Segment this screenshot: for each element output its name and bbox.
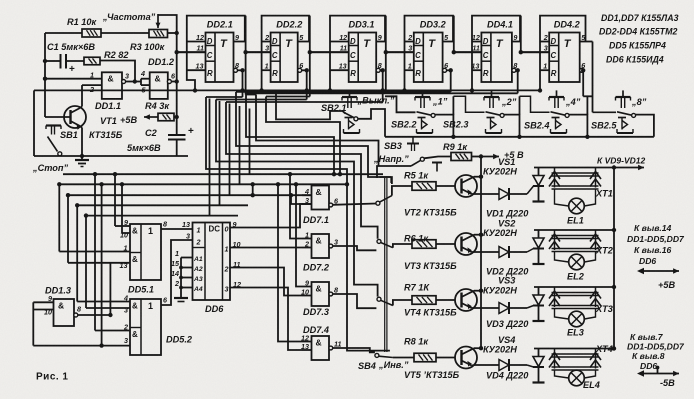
- resistor R8: [414, 353, 436, 362]
- SB4 ch1 contact: [376, 201, 380, 205]
- wire Qn vertical DD4.2: [581, 68, 593, 96]
- DD5.1 pin9: [115, 218, 130, 227]
- wire Q1 to next C link: [310, 51, 349, 53]
- nest feed 1: [206, 96, 243, 98]
- SB3 arm: [411, 157, 424, 166]
- label Inv: [378, 360, 409, 370]
- label R6: [404, 234, 429, 244]
- SB4 ch2 gate wire: [333, 246, 376, 250]
- nest wire 3: [226, 102, 378, 239]
- label n1: [432, 97, 448, 107]
- label SB4: [358, 361, 376, 371]
- DD4.2 Q output: [580, 41, 593, 43]
- bundle column extra 3: [229, 104, 231, 196]
- DD5.2 pin4: [77, 294, 130, 303]
- pin 4 5 labels: [140, 69, 147, 95]
- gate DD1.1: [102, 72, 122, 99]
- resistor R5: [412, 182, 436, 191]
- DD2.2 pin labels left: [264, 33, 269, 71]
- wiper arrow R3: [156, 14, 161, 28]
- arrow plus5 channels: [481, 154, 499, 159]
- pushbutton SB2.4 actuator: [549, 90, 564, 108]
- SB2.4 chain: [587, 95, 592, 97]
- wire VD4 to gate: [509, 365, 534, 367]
- wire R7 to base: [436, 299, 455, 301]
- DD3.2 Q output: [443, 42, 456, 55]
- DD6 A stubs: [174, 258, 193, 302]
- resistor R4: [158, 113, 174, 121]
- DD3.2 R stub: [405, 69, 414, 71]
- label K vyv7: [630, 332, 664, 342]
- wire R8 to base: [436, 357, 455, 359]
- junction VT1 emitter ground: [80, 154, 84, 158]
- bundle column extra 5: [249, 109, 251, 175]
- DD1.3 out riser: [109, 263, 111, 315]
- collector rail: [480, 157, 482, 349]
- lamp EL4: [555, 370, 596, 386]
- DD4.2 C stub: [521, 51, 549, 53]
- label VS1: [498, 157, 515, 167]
- nest feed 2: [216, 99, 307, 101]
- DD7.1 input stubs: [302, 195, 312, 204]
- SB4 ch4 contact: [375, 353, 379, 357]
- wire osc node vertical: [176, 33, 178, 135]
- nest wire 5: [246, 93, 334, 174]
- DD7.4 output: [329, 340, 342, 350]
- bus wire HL5: [86, 215, 238, 217]
- potentiometer R3: [149, 30, 168, 38]
- DD2.1 pin labels right: [235, 33, 239, 70]
- pushbutton SB2.2 actuator: [415, 90, 430, 108]
- label R9 1k: [443, 142, 468, 152]
- label EL1: [567, 216, 584, 226]
- nest wire 2: [216, 100, 378, 297]
- flip-flop DD2.2 body: [262, 16, 309, 91]
- DD1.3 pin9: [33, 294, 53, 303]
- label KT315B VT1: [89, 130, 123, 140]
- nest feed 8: [276, 52, 386, 92]
- thyristor VS4: [533, 349, 545, 383]
- SB2.3 arm: [486, 112, 505, 118]
- thyristor VS2: [533, 230, 545, 264]
- label VS3 type: [483, 286, 517, 296]
- DD5.1 pin1: [59, 244, 130, 253]
- bus link vertical: [251, 182, 255, 195]
- DD4.2 pin labels right: [581, 33, 586, 70]
- diode VD1: [499, 188, 509, 200]
- DD3.2 pin labels right: [444, 33, 449, 70]
- DD3.1 Q output: [376, 42, 388, 55]
- label DD list minus: [627, 342, 685, 352]
- wire VT5 collector: [474, 346, 483, 350]
- resistor R7: [412, 296, 436, 305]
- label XT3: [595, 304, 613, 314]
- resistor R1: [82, 29, 101, 37]
- wire VT4 emitter: [472, 307, 500, 309]
- label DD1.2: [148, 57, 175, 67]
- label VD1: [486, 209, 529, 219]
- lamp EL2: [555, 252, 596, 270]
- wire Q4 to next C link: [521, 51, 549, 53]
- SB4 ch1 arm: [379, 196, 392, 203]
- label list line4: [606, 55, 664, 65]
- label minus5V: [660, 378, 675, 388]
- DD6 pin13 label: [182, 220, 190, 229]
- label n4: [565, 97, 581, 107]
- label VT5: [404, 370, 460, 380]
- label K VD9-VD12: [597, 156, 645, 166]
- DD7.2 pin labels: [304, 231, 309, 249]
- label R2 82: [104, 50, 129, 60]
- SB2.5 pole: [593, 111, 617, 113]
- gate DD7.1: [312, 186, 330, 210]
- flip-flop DD4.1 body: [472, 16, 520, 91]
- label DD4.2: [554, 20, 581, 30]
- SB2.1 arm: [344, 113, 358, 121]
- label C1 value: [47, 42, 95, 52]
- wire VD1 to gate: [509, 186, 534, 194]
- wire VT3 emitter: [472, 251, 500, 253]
- SB2.2 contact wire: [435, 96, 455, 139]
- wire Qn vertical DD2.1: [240, 68, 244, 97]
- SB2.1 chain: [385, 96, 416, 112]
- pin 2 DD1.1: [82, 85, 102, 94]
- arrow K VD9-VD12: [614, 165, 644, 170]
- DD4.1 pin labels left: [471, 33, 480, 71]
- nest feed 5: [246, 92, 518, 94]
- DD4.1 Q output: [512, 42, 523, 55]
- SB2.5 spring: [617, 118, 633, 134]
- wire R3 wiper loop: [158, 15, 177, 33]
- wire SB4 ch4 pole: [393, 357, 414, 359]
- DD3.1 reset rail junction: [328, 88, 332, 92]
- label DD3.1: [348, 20, 374, 30]
- label SB2.5: [591, 121, 617, 131]
- label list line1: [601, 13, 679, 23]
- DD3.2 pin labels left: [407, 33, 412, 71]
- DD2.1 Q vertical: [245, 16, 247, 53]
- label list line2: [599, 27, 677, 37]
- nest feed 4: [236, 91, 451, 93]
- nest feed 3: [226, 101, 383, 103]
- label DD2.2: [276, 20, 303, 30]
- DD3.2 Q vertical: [453, 16, 455, 53]
- label SB2.3: [443, 120, 469, 130]
- label VS4: [498, 335, 515, 345]
- bundle column extra 1: [209, 99, 211, 216]
- riser DD7.2 in: [288, 172, 302, 239]
- SB4 ch4 gate wire: [333, 348, 375, 352]
- DD3.1 Qn output: [376, 68, 383, 72]
- SB4 ch3 gate wire: [333, 294, 376, 308]
- resistor R2: [84, 57, 100, 65]
- label SB2.2: [391, 120, 417, 130]
- connector XT3 plug right: [590, 287, 601, 307]
- label SB2.1: [321, 103, 347, 113]
- label SB1: [60, 130, 78, 140]
- DD7.3 input stubs: [302, 287, 312, 296]
- flip-flop DD4.2 body: [540, 16, 586, 91]
- label DD6: [205, 304, 224, 314]
- label DD2.1: [207, 20, 233, 30]
- left vertical 6: [99, 182, 103, 346]
- wire node A vertical: [44, 33, 46, 117]
- label K vyv16: [634, 245, 672, 255]
- DD2.1 pin labels left: [196, 33, 205, 71]
- SB2.5 arm: [617, 112, 636, 118]
- DD6 out9 wire: [230, 204, 312, 228]
- nest bus dot b: [338, 172, 342, 176]
- wire C line to DD2.1: [177, 51, 206, 53]
- SB3 handle symbol: [432, 163, 442, 172]
- capacitor C2: [168, 135, 186, 156]
- pushbutton SB2.5 actuator: [616, 90, 631, 108]
- wire top rail to R1: [45, 32, 82, 34]
- label n8: [631, 97, 647, 107]
- SB4 ch1 gate wire: [333, 204, 376, 205]
- label plus5V R4: [120, 115, 137, 125]
- SB2.1 contact wire: [358, 109, 385, 137]
- DD2.2 R stub: [262, 69, 271, 71]
- label K vyv8: [632, 351, 665, 361]
- riser DD7.4 in: [276, 182, 302, 341]
- DD3.2 Qn output: [443, 68, 451, 72]
- wire R5 to base: [436, 185, 455, 187]
- SB2.4 contact wire: [569, 96, 590, 139]
- nest wire 6: [256, 95, 379, 167]
- connector XT3 plug left: [549, 287, 560, 307]
- label VT3: [404, 261, 457, 271]
- label R8: [404, 337, 429, 347]
- label EL4: [583, 380, 600, 390]
- label SB3: [384, 141, 402, 151]
- left vertical 3: [75, 203, 79, 301]
- diode VD3: [499, 302, 509, 314]
- connector XT4 plug left: [549, 349, 560, 369]
- node C-line dot: [175, 50, 179, 54]
- SB2.5 contact wire: [636, 115, 654, 137]
- connector XT3 cable: [552, 293, 599, 309]
- wire Qn vertical DD3.1: [381, 68, 385, 102]
- DD3.1 C stub: [310, 51, 349, 53]
- SB2.4 spring: [551, 118, 567, 134]
- DD6 A pin numbers: [171, 249, 180, 288]
- DD1.3 input loop: [33, 302, 130, 348]
- capacitor C1: [45, 54, 84, 69]
- label VT4: [404, 308, 457, 318]
- DD4.1 Q vertical: [520, 16, 522, 53]
- transistor VT2: [455, 175, 477, 197]
- pushbutton SB1: [46, 126, 62, 156]
- resistor R9: [451, 153, 472, 161]
- SB4 ch3 pole: [393, 300, 412, 306]
- label VT1: [100, 116, 117, 126]
- nest bus dot a: [332, 172, 336, 176]
- wire R6 to base: [436, 243, 455, 245]
- DD6 out11 wire: [230, 268, 302, 296]
- DD5.2 pin2: [95, 323, 130, 332]
- DD2.2 reset rail junction: [259, 88, 263, 92]
- bundle column extra 4: [239, 106, 241, 184]
- label DD6 plus: [639, 256, 656, 266]
- riser DD7.1 jog: [291, 195, 312, 204]
- DD2.1 reset rail junction: [193, 88, 197, 92]
- right rail: [613, 168, 615, 349]
- flip-flop DD3.1 body: [330, 16, 385, 91]
- switch common rail: [385, 136, 654, 138]
- DD2.2 C stub: [246, 51, 271, 53]
- label C1 plus: [69, 64, 75, 75]
- DD2.2 Q output: [298, 42, 312, 55]
- gate DD7.3: [312, 282, 330, 306]
- label K vyv14: [634, 223, 672, 233]
- DD6 out10 wire: [230, 247, 302, 249]
- label n2: [501, 97, 517, 107]
- wire VT2 collector: [474, 175, 483, 179]
- label R4 3k: [145, 101, 170, 111]
- bus wire HL2: [59, 182, 349, 186]
- left vertical 4: [84, 213, 88, 308]
- left vertical 1: [57, 182, 61, 251]
- wire R2 to DD1.1 out: [100, 61, 135, 82]
- wire Q2 to next C link: [386, 51, 414, 53]
- DD2.1 Q output: [234, 42, 248, 55]
- label VD3: [486, 319, 529, 329]
- lamp EL3: [555, 309, 596, 327]
- connector XT4 plug right: [590, 349, 601, 369]
- ground symbol: [75, 156, 89, 167]
- block DD5.2: [130, 299, 161, 355]
- label XT2: [595, 246, 614, 256]
- thyristor VS1: [533, 168, 545, 202]
- ground rail stop: [34, 155, 188, 157]
- DD4.2 R stub: [540, 69, 549, 71]
- DD4.1 C stub: [454, 51, 482, 53]
- wire VT1 collector: [81, 85, 83, 106]
- nest wire 8: [276, 92, 346, 119]
- label DD3.2: [420, 20, 447, 30]
- SB2.1 spring: [344, 118, 360, 134]
- DD2.2 Q vertical: [309, 16, 311, 53]
- SB2.2 arm: [417, 112, 436, 118]
- DD3.1 pin labels right: [378, 33, 382, 70]
- SB4 link: [385, 178, 387, 352]
- connector XT1 cable: [552, 173, 599, 189]
- plus5 double arrow: [637, 268, 679, 274]
- label DD4.1: [487, 20, 513, 30]
- label Napr: [373, 154, 409, 164]
- pin 3 output DD1.1: [122, 71, 135, 83]
- resistor R6: [412, 240, 436, 249]
- diode VD2: [499, 246, 509, 258]
- DD7.1 output: [329, 197, 339, 207]
- connector XT1 plug right: [590, 168, 601, 188]
- label plus5V right: [658, 280, 675, 290]
- wire channel 4 top: [534, 346, 616, 350]
- wire channel 3 top: [534, 285, 616, 289]
- left vertical 7: [113, 172, 117, 226]
- connector XT2 plug left: [549, 230, 560, 250]
- connector XT2 cable: [552, 236, 599, 252]
- wire R9 out: [472, 154, 484, 158]
- DD7.4 input stubs: [302, 342, 312, 351]
- SB4 link top bracket: [380, 177, 392, 183]
- DD4.1 R stub: [472, 69, 481, 71]
- wire VT5 emitter: [472, 364, 500, 367]
- DD6 out pin numbers: [233, 220, 242, 289]
- SB4 ch1 pole: [392, 186, 412, 196]
- bus wire HL3: [68, 193, 311, 197]
- bundle column extra 2: [219, 101, 221, 205]
- gate DD1.2: [150, 72, 168, 99]
- wire Qn vertical DD2.2: [305, 68, 309, 99]
- block DD5.1: [130, 224, 161, 280]
- left vertical 8: [120, 182, 124, 233]
- DD7.2 input stubs: [302, 239, 312, 248]
- DD5.2 pin3b: [124, 336, 128, 345]
- DD4.2 pin labels left: [543, 33, 548, 71]
- wire VT4 collector: [474, 289, 483, 293]
- flip-flop DD3.2 body: [405, 16, 454, 91]
- transistor VT1: [45, 106, 86, 130]
- pin 1 DD1.1: [45, 71, 102, 80]
- SB4 ch3 arm: [380, 300, 393, 305]
- wire SB3 to R9: [424, 157, 451, 159]
- decoder DD6: [193, 223, 231, 301]
- label R1 10k: [67, 17, 98, 27]
- left vertical 2: [66, 193, 70, 263]
- node dot DD1.1 out: [133, 79, 137, 83]
- label VD4: [486, 371, 529, 381]
- label EL2: [567, 272, 585, 282]
- gate DD1.3: [54, 299, 75, 326]
- wire VD2 to gate: [509, 249, 534, 253]
- gate DD7.2: [312, 234, 330, 258]
- label DD5.1: [128, 285, 154, 295]
- node DD1.2 out dot: [175, 79, 179, 83]
- left vertical 5: [93, 172, 97, 331]
- wire Qn vertical DD3.2: [449, 68, 453, 92]
- DD7.1 pin labels: [304, 187, 309, 205]
- DD2.1 R stub: [187, 69, 206, 71]
- label XT1: [595, 189, 613, 199]
- node A junction dots: [43, 59, 47, 81]
- DD1.3 pin10: [33, 308, 53, 317]
- label DD list plus: [627, 234, 685, 244]
- DD7.4 pin labels: [301, 334, 309, 352]
- wire VT2 emitter: [472, 193, 500, 195]
- wire VT3 collector: [474, 233, 483, 237]
- bus wire HL1: [63, 173, 383, 175]
- wire channel 2 top: [534, 228, 616, 232]
- DD7.3 output: [329, 286, 338, 296]
- node R4 dot: [175, 115, 179, 119]
- DD1.3 out: [74, 305, 113, 318]
- SB4 ch2 contact: [377, 239, 381, 243]
- wire R1 to R3: [101, 32, 149, 34]
- flip-flop DD2.1 body: [187, 16, 245, 91]
- SB4 ch3 contact: [377, 297, 381, 301]
- DD6 pin3 label: [186, 232, 190, 241]
- wire left vertical: [33, 90, 35, 156]
- SB3 pole wire: [377, 166, 411, 178]
- DD6 inner in numbers: [196, 226, 201, 247]
- pushbutton SB2.1 actuator: [342, 90, 357, 108]
- wire channel 1 top: [534, 165, 616, 169]
- nest wire 7: [266, 97, 340, 175]
- wire VD3 to gate: [509, 306, 534, 309]
- SB2.4 arm: [551, 112, 570, 118]
